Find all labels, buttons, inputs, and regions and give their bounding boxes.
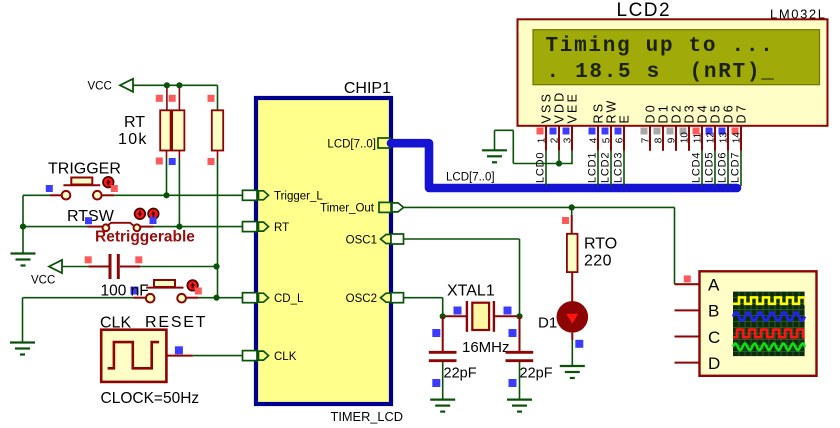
svg-text:D7: D7 xyxy=(735,103,749,123)
lcd pin 12 stub xyxy=(714,126,716,151)
svg-text:TRIGGER: TRIGGER xyxy=(48,161,121,178)
svg-text:RT: RT xyxy=(124,114,145,131)
svg-text:Timing up to ...: Timing up to ... xyxy=(546,35,775,58)
pin Trigger_L xyxy=(243,190,258,200)
switch RTSW xyxy=(103,224,110,231)
svg-text:13: 13 xyxy=(719,132,730,144)
wire capacitor right to junction xyxy=(120,266,140,268)
node VCC-R2 junction xyxy=(176,82,182,88)
actuator RTSW down xyxy=(135,209,146,220)
wire RTO to LED xyxy=(571,272,573,302)
wire lcd pin 12 to bus xyxy=(714,151,716,186)
scope trace D green sine xyxy=(733,343,805,350)
node VCC-R1 junction xyxy=(164,82,170,88)
pin LCD[7..0] bus port xyxy=(378,138,390,148)
pin RT xyxy=(243,222,258,232)
wire ground net horizontal xyxy=(513,163,573,165)
lcd pin 14 stub xyxy=(740,126,742,151)
wire RESET right to chip CD_L xyxy=(186,297,198,299)
power symbol VCC (top) xyxy=(120,79,133,92)
svg-text:D1: D1 xyxy=(657,103,671,123)
actuator RTSW up xyxy=(148,209,159,220)
crystal XTAL1 xyxy=(444,315,466,317)
svg-text:OSC2: OSC2 xyxy=(346,293,377,305)
ground (left upper) xyxy=(11,254,36,266)
svg-text:VEE: VEE xyxy=(566,92,580,124)
svg-text:CLK: CLK xyxy=(274,351,297,363)
svg-text:RW: RW xyxy=(605,99,619,124)
svg-text:Trigger_L: Trigger_L xyxy=(274,191,323,203)
actuator TRIGGER xyxy=(103,177,114,188)
svg-text:LCD1: LCD1 xyxy=(587,152,599,183)
scope trace C red square xyxy=(733,330,809,338)
wire left cap stub xyxy=(442,316,444,351)
clock generator CLK box xyxy=(101,330,166,382)
svg-text:1: 1 xyxy=(537,137,548,143)
svg-text:D5: D5 xyxy=(709,103,723,123)
svg-text:D3: D3 xyxy=(683,103,697,123)
wire lcd pin 5 to bus xyxy=(610,151,612,186)
svg-text:10: 10 xyxy=(680,132,691,144)
actuator RESET xyxy=(187,280,198,291)
wire TRIGGER right to chip Trigger_L xyxy=(102,194,115,196)
node cap/R3 junction xyxy=(213,263,219,269)
svg-text:TIMER_LCD: TIMER_LCD xyxy=(331,409,404,424)
pin CLK xyxy=(243,351,258,361)
scope pin C xyxy=(675,336,700,338)
lcd pin 8 stub xyxy=(662,126,664,151)
node TRIGGER/RTSW junction xyxy=(20,224,26,230)
wire CLK to chip xyxy=(167,355,193,357)
node OSC1/xtal junction xyxy=(516,313,522,319)
svg-text:LCD4: LCD4 xyxy=(691,152,703,183)
scope trace B blue sine xyxy=(733,312,805,320)
svg-text:VSS: VSS xyxy=(540,92,554,124)
svg-text:22pF: 22pF xyxy=(520,366,553,382)
ground (left cap) xyxy=(430,400,455,412)
wire lcd pin 11 to bus xyxy=(701,151,703,186)
svg-text:8: 8 xyxy=(654,137,665,143)
svg-text:LCD[7..0]: LCD[7..0] xyxy=(327,138,376,150)
capacitor C1 100nF xyxy=(109,254,112,279)
svg-text:LCD[7..0]: LCD[7..0] xyxy=(446,172,495,184)
wire corner down to ground xyxy=(22,298,24,342)
ground (right cap) xyxy=(507,400,532,412)
wire right cap to ground xyxy=(519,362,521,399)
pin CD_L xyxy=(243,293,258,303)
LED D1 xyxy=(557,301,589,333)
svg-text:7: 7 xyxy=(641,137,652,143)
wire left cap to ground xyxy=(442,362,444,399)
svg-text:D0: D0 xyxy=(644,103,658,123)
svg-text:D4: D4 xyxy=(696,103,710,123)
wire VCC rail to resistors xyxy=(133,84,218,86)
svg-text:CD_L: CD_L xyxy=(274,293,304,305)
wire RT R1 top stub xyxy=(166,85,168,110)
bus LCD[7..0] xyxy=(391,143,737,188)
node RT/R2 junction xyxy=(176,224,182,230)
svg-text:RT: RT xyxy=(274,222,289,234)
lcd pin 1 stub xyxy=(545,126,547,151)
svg-text:3: 3 xyxy=(563,137,574,143)
svg-text:VCC: VCC xyxy=(88,81,112,93)
svg-text:D: D xyxy=(708,354,720,373)
lcd pin 9 stub xyxy=(675,126,677,151)
wire pin3 to ground net xyxy=(571,151,573,164)
scope pin B xyxy=(675,309,700,311)
wire ground net riser xyxy=(512,130,514,163)
svg-text:16MHz: 16MHz xyxy=(462,339,510,356)
lcd pin 2 stub xyxy=(558,126,560,151)
scope pin D xyxy=(675,362,700,364)
svg-text:C: C xyxy=(708,328,720,347)
wire RT R2 top stub xyxy=(178,85,180,110)
wire CD_L line left corner xyxy=(23,297,134,299)
ground (lcd) xyxy=(482,150,507,162)
svg-text:D6: D6 xyxy=(722,103,736,123)
svg-text:12: 12 xyxy=(706,132,717,144)
node Timer_Out/RTO junction xyxy=(569,204,575,210)
pin Timer_Out xyxy=(379,202,391,212)
svg-text:11: 11 xyxy=(693,132,704,143)
pin OSC2 xyxy=(381,293,392,302)
clock waveform glyph xyxy=(108,342,160,368)
push-button TRIGGER xyxy=(71,178,92,185)
svg-text:VCC: VCC xyxy=(31,275,55,287)
lcd pin 5 stub xyxy=(610,126,612,151)
scope trace A yellow square xyxy=(733,297,811,303)
wire ground stem (lcd) xyxy=(494,130,496,149)
svg-text:LCD6: LCD6 xyxy=(717,152,729,183)
svg-text:5: 5 xyxy=(602,137,613,143)
node CD_L/R3 junction xyxy=(213,295,219,301)
wire RTSW right to chip RT pin xyxy=(140,226,154,228)
svg-text:4: 4 xyxy=(589,137,600,143)
svg-text:VDD: VDD xyxy=(553,91,567,124)
svg-text:D1: D1 xyxy=(538,315,557,332)
wire right cap stub xyxy=(519,316,521,351)
wire R3 bottom down to CD_L line xyxy=(217,151,219,159)
svg-text:9: 9 xyxy=(667,137,678,143)
resistor RTO 220 xyxy=(567,234,578,272)
capacitor C2 22pF xyxy=(429,351,457,354)
power symbol VCC (lower) xyxy=(49,260,62,273)
wire RTSW left xyxy=(23,226,88,228)
wire OSC1 to crystal right xyxy=(404,238,520,240)
lcd pin 3 stub xyxy=(571,126,573,151)
resistor RT R2 (right of pair) xyxy=(172,110,184,150)
svg-text:6: 6 xyxy=(615,137,626,143)
wire corner down to RTSW line xyxy=(22,195,24,226)
scope screen xyxy=(733,292,805,357)
svg-text:LCD3: LCD3 xyxy=(613,152,625,183)
svg-text:RS: RS xyxy=(592,102,606,124)
wire junction down to ground xyxy=(22,227,24,254)
svg-text:220: 220 xyxy=(584,253,612,270)
lcd pin 10 stub xyxy=(688,126,690,151)
lcd pin 13 stub xyxy=(727,126,729,151)
node OSC2/xtal junction xyxy=(440,313,446,319)
lcd screen xyxy=(533,30,820,85)
node pin2 junction xyxy=(556,160,562,166)
wire Timer_Out to scope A xyxy=(404,206,675,208)
svg-text:Timer_Out: Timer_Out xyxy=(320,203,375,215)
wire LCD0 pin1 to bus xyxy=(545,151,547,186)
ground (LED) xyxy=(560,366,585,378)
scope pin A xyxy=(675,283,700,285)
svg-text:Retriggerable: Retriggerable xyxy=(95,229,195,246)
lcd pin 11 stub xyxy=(701,126,703,151)
wire VCC to capacitor xyxy=(62,266,88,268)
svg-text:. 18.5 s (nRT)_: . 18.5 s (nRT)_ xyxy=(547,61,776,84)
svg-text:LCD2: LCD2 xyxy=(600,152,612,183)
capacitor C3 22pF xyxy=(506,351,534,354)
lcd pin 6 stub xyxy=(623,126,625,151)
svg-text:OSC1: OSC1 xyxy=(346,234,377,246)
svg-text:LCD2: LCD2 xyxy=(617,0,672,21)
wire OSC2 to crystal xyxy=(404,297,443,299)
svg-text:XTAL1: XTAL1 xyxy=(447,283,495,300)
svg-text:E: E xyxy=(618,113,632,124)
node Trigger_L/R1 junction xyxy=(163,192,169,198)
wire TRIGGER left to corner xyxy=(23,194,50,196)
resistor R3 xyxy=(212,110,223,150)
svg-text:A: A xyxy=(708,276,720,295)
lcd LCD2 body xyxy=(518,19,828,126)
svg-text:LCD7: LCD7 xyxy=(730,152,742,183)
ic CHIP1 body xyxy=(256,98,391,404)
label 100 nF xyxy=(131,287,139,295)
wire lcd pin 4 to bus xyxy=(597,151,599,186)
svg-text:D2: D2 xyxy=(670,103,684,123)
push-button RESET xyxy=(154,280,175,287)
svg-text:RTO: RTO xyxy=(584,236,617,253)
wire pin2 to ground net xyxy=(558,151,560,164)
svg-text:LCD5: LCD5 xyxy=(704,152,716,183)
svg-text:LCD0: LCD0 xyxy=(535,152,547,183)
svg-text:B: B xyxy=(708,302,719,321)
wire LED to ground xyxy=(571,333,573,340)
svg-text:22pF: 22pF xyxy=(444,366,477,382)
oscilloscope body xyxy=(700,271,817,376)
ground (left lower) xyxy=(10,343,35,355)
lcd pin 7 stub xyxy=(649,126,651,151)
wire lcd pin 13 to bus xyxy=(727,151,729,186)
pin OSC1 xyxy=(381,235,392,244)
svg-text:CHIP1: CHIP1 xyxy=(344,80,391,97)
wire lcd pin 6 to bus xyxy=(623,151,625,186)
svg-text:CLOCK=50Hz: CLOCK=50Hz xyxy=(101,390,200,407)
lcd pin 4 stub xyxy=(597,126,599,151)
wire RTO top stub xyxy=(571,207,573,215)
wire R2 bottom to RT line xyxy=(178,151,180,159)
svg-text:2: 2 xyxy=(550,137,561,143)
svg-text:14: 14 xyxy=(732,132,743,144)
wire lcd pin 14 to bus xyxy=(740,151,742,186)
svg-text:10k: 10k xyxy=(118,131,148,148)
resistor RT R1 (left of pair) xyxy=(160,110,170,150)
wire R1 bottom to Trigger_L line xyxy=(166,151,168,159)
